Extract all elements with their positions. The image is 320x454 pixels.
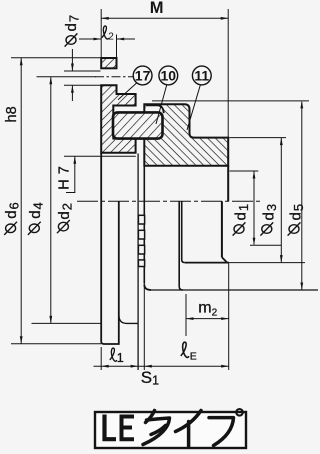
svg-text:d1: d1 <box>233 204 252 221</box>
svg-text:d2: d2 <box>56 203 75 220</box>
svg-text:E: E <box>190 351 197 363</box>
svg-text:1: 1 <box>117 351 124 365</box>
svg-text:M: M <box>150 0 164 17</box>
svg-text:h8: h8 <box>4 106 20 122</box>
svg-text:17: 17 <box>135 67 151 83</box>
svg-text:d5: d5 <box>288 204 307 221</box>
svg-text:d7: d7 <box>63 15 82 32</box>
svg-text:10: 10 <box>161 67 177 83</box>
svg-text:d6: d6 <box>3 202 22 219</box>
svg-text:2: 2 <box>108 32 114 43</box>
svg-text:d4: d4 <box>27 202 46 219</box>
svg-text:11: 11 <box>194 67 209 83</box>
svg-text:d3: d3 <box>260 204 279 221</box>
